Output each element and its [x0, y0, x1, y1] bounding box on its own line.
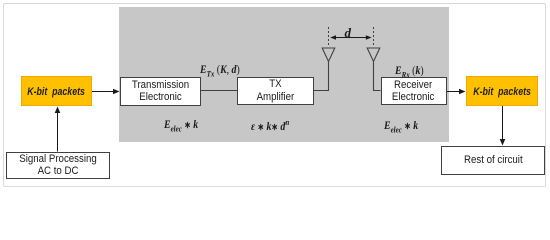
Transmission Electronic	[120, 77, 201, 106]
wire: Transmission to TX Amplifier	[201, 90, 237, 92]
label E_Rx(k)	[395, 63, 424, 79]
wire: TX Amplifier to left antenna	[314, 62, 329, 91]
antenna TX	[322, 48, 335, 62]
Receiver Electronic	[381, 77, 447, 105]
wire: orange right down to Rest of circuit (arrow)	[500, 106, 506, 146]
wire: orange left to Transmission (arrow)	[92, 89, 120, 95]
wire: right antenna to Receiver	[374, 62, 381, 91]
wire: Receiver to orange right (arrow)	[447, 89, 466, 95]
distance arrow d	[330, 35, 371, 40]
dashed guide above TX antenna	[328, 27, 330, 47]
label d	[345, 25, 352, 41]
Signal Processing AC to DC	[6, 152, 111, 180]
K-bit packets (left)	[21, 76, 92, 106]
outer frame	[3, 3, 546, 187]
K-bit packets (right)	[466, 76, 538, 106]
gray channel background	[119, 7, 449, 142]
label E_elec * k (left)	[164, 117, 198, 133]
Rest of circuit	[441, 146, 545, 175]
antenna RX	[367, 48, 380, 62]
label E_Tx(K,d)	[200, 62, 240, 78]
wire: Signal Processing up to orange left (arrow)	[55, 107, 61, 152]
dashed guide above RX antenna	[373, 27, 375, 47]
label eps*k*d^n	[251, 117, 289, 134]
TX Amplifier	[237, 77, 315, 105]
label E_elec * k (right)	[384, 118, 418, 134]
